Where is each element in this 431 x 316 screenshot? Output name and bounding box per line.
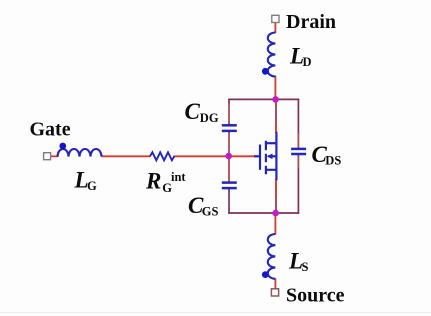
capacitor CGS <box>222 183 237 189</box>
inductor LG <box>58 149 102 157</box>
wire: MOSFET source to bottom node <box>275 180 277 214</box>
capacitor CDG <box>222 125 237 131</box>
value label LD <box>289 44 312 70</box>
drain terminal square <box>272 15 279 22</box>
inductor LS <box>268 234 276 279</box>
node junction: bottom (source) node <box>272 210 279 217</box>
wire: box bottom rail (purple) <box>228 212 299 214</box>
svg-text:Source: Source <box>286 285 345 307</box>
capacitor CDS <box>291 149 306 154</box>
label Gate <box>30 119 71 141</box>
svg-text:DG: DG <box>200 111 219 125</box>
wire: box left branch gate node to CGS <box>228 156 230 182</box>
label Source <box>286 285 345 307</box>
value label CDS <box>312 142 342 168</box>
inductor LD <box>268 33 276 77</box>
wire: box right branch upper (top rail to CDS) <box>297 99 299 149</box>
svg-text:Gate: Gate <box>30 119 71 141</box>
gate terminal square <box>44 153 51 160</box>
svg-text:Drain: Drain <box>286 11 336 33</box>
svg-text:GS: GS <box>202 205 219 219</box>
svg-text:S: S <box>302 260 309 274</box>
wire: LS to source terminal <box>274 279 276 290</box>
value label RGint <box>145 169 186 196</box>
wire: LG to RGint <box>102 155 151 157</box>
inductor LG polarity dot <box>59 143 66 150</box>
inductor LS polarity dot <box>262 271 269 278</box>
wire: box left branch upper (top rail to CDG) <box>228 99 230 125</box>
wire: RGint to gate node and on to MOSFET gate <box>174 155 255 157</box>
value label CDG <box>185 99 219 125</box>
inductor LD polarity dot <box>262 68 269 75</box>
label Drain <box>286 11 336 33</box>
source terminal square <box>271 289 278 296</box>
value label LG <box>74 168 98 194</box>
wire: drain terminal to LD <box>274 22 276 33</box>
transistor M1 (MOSFET) <box>254 132 276 181</box>
svg-text:R: R <box>145 169 161 194</box>
faint page rule line at bottom <box>0 312 431 314</box>
svg-text:int: int <box>171 170 186 184</box>
wire: LD to top node <box>274 76 276 101</box>
svg-text:D: D <box>303 55 312 69</box>
value label CGS <box>188 193 219 219</box>
svg-text:DS: DS <box>325 154 341 168</box>
node junction: top (drain) node <box>272 96 279 103</box>
wire: box left branch CDG to gate node <box>228 131 230 156</box>
resistor RGint <box>150 152 174 160</box>
wire: box top rail (purple) <box>228 98 299 100</box>
svg-text:C: C <box>185 99 201 124</box>
svg-text:G: G <box>87 179 97 193</box>
wire: gate terminal to LG <box>51 155 59 157</box>
wire: top node to MOSFET drain <box>275 99 277 133</box>
wire: box right branch lower (CDS to bottom rail) <box>297 154 299 214</box>
value label LS <box>288 249 309 275</box>
node junction: gate node <box>225 153 232 160</box>
wire: bottom node to LS <box>274 213 276 235</box>
wire: box left branch CGS to bottom rail <box>228 188 230 213</box>
